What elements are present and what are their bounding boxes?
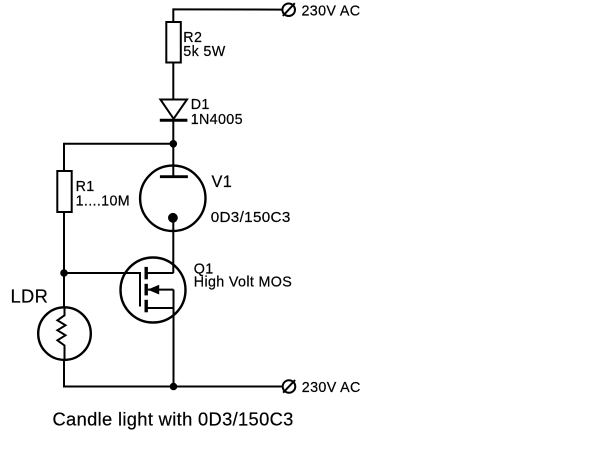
- body wire with arrow: [148, 289, 174, 291]
- gate bar: [139, 272, 141, 307]
- wire branch to left rail: [64, 143, 173, 145]
- drain wire: [146, 272, 173, 274]
- svg-text:LDR: LDR: [11, 286, 49, 307]
- wire V1 cathode down to Q1 drain: [172, 218, 174, 273]
- wire bottom rail: [63, 386, 283, 388]
- resistor R2: [166, 22, 181, 63]
- svg-text:D1: D1: [191, 97, 210, 113]
- channel bar top: [144, 267, 147, 279]
- svg-text:High Volt MOS: High Volt MOS: [194, 275, 292, 291]
- svg-text:Candle light with 0D3/150C3: Candle light with 0D3/150C3: [53, 409, 294, 430]
- wire gate from node: [64, 272, 140, 274]
- wire R2 to D1: [172, 63, 174, 101]
- svg-text:V1: V1: [212, 173, 233, 191]
- svg-text:230V AC: 230V AC: [302, 380, 361, 396]
- resistor R1: [57, 171, 71, 212]
- terminal top 230V AC: [282, 3, 295, 16]
- wire top horizontal to terminal: [173, 8, 282, 10]
- wire D1 to V1: [172, 120, 174, 176]
- svg-text:1....10M: 1....10M: [76, 194, 130, 210]
- wire terminal corner down to R2: [172, 8, 174, 23]
- node junction dot bottom: [170, 383, 178, 391]
- terminal bottom 230V AC: [283, 380, 296, 393]
- wire Q1 source down to bottom rail: [173, 308, 175, 387]
- source-body connector: [173, 290, 175, 308]
- channel bar bottom: [144, 300, 147, 313]
- svg-text:230V AC: 230V AC: [302, 3, 361, 19]
- transistor Q1 MOSFET: [121, 258, 186, 323]
- wire LDR to bottom rail corner: [63, 360, 65, 388]
- tube V1: [140, 166, 205, 231]
- source wire: [146, 307, 173, 309]
- channel bar middle: [144, 284, 147, 296]
- svg-text:0D3/150C3: 0D3/150C3: [211, 209, 291, 226]
- svg-text:5k 5W: 5k 5W: [183, 44, 225, 60]
- wire left rail down to R1: [63, 143, 65, 172]
- LDR: [38, 307, 91, 361]
- svg-text:1N4005: 1N4005: [191, 112, 243, 128]
- diode D1: [160, 100, 188, 121]
- wire R1 to gate node: [63, 212, 65, 307]
- node junction dot at D1/R1 branch: [170, 140, 178, 148]
- node junction dot gate branch: [60, 269, 68, 277]
